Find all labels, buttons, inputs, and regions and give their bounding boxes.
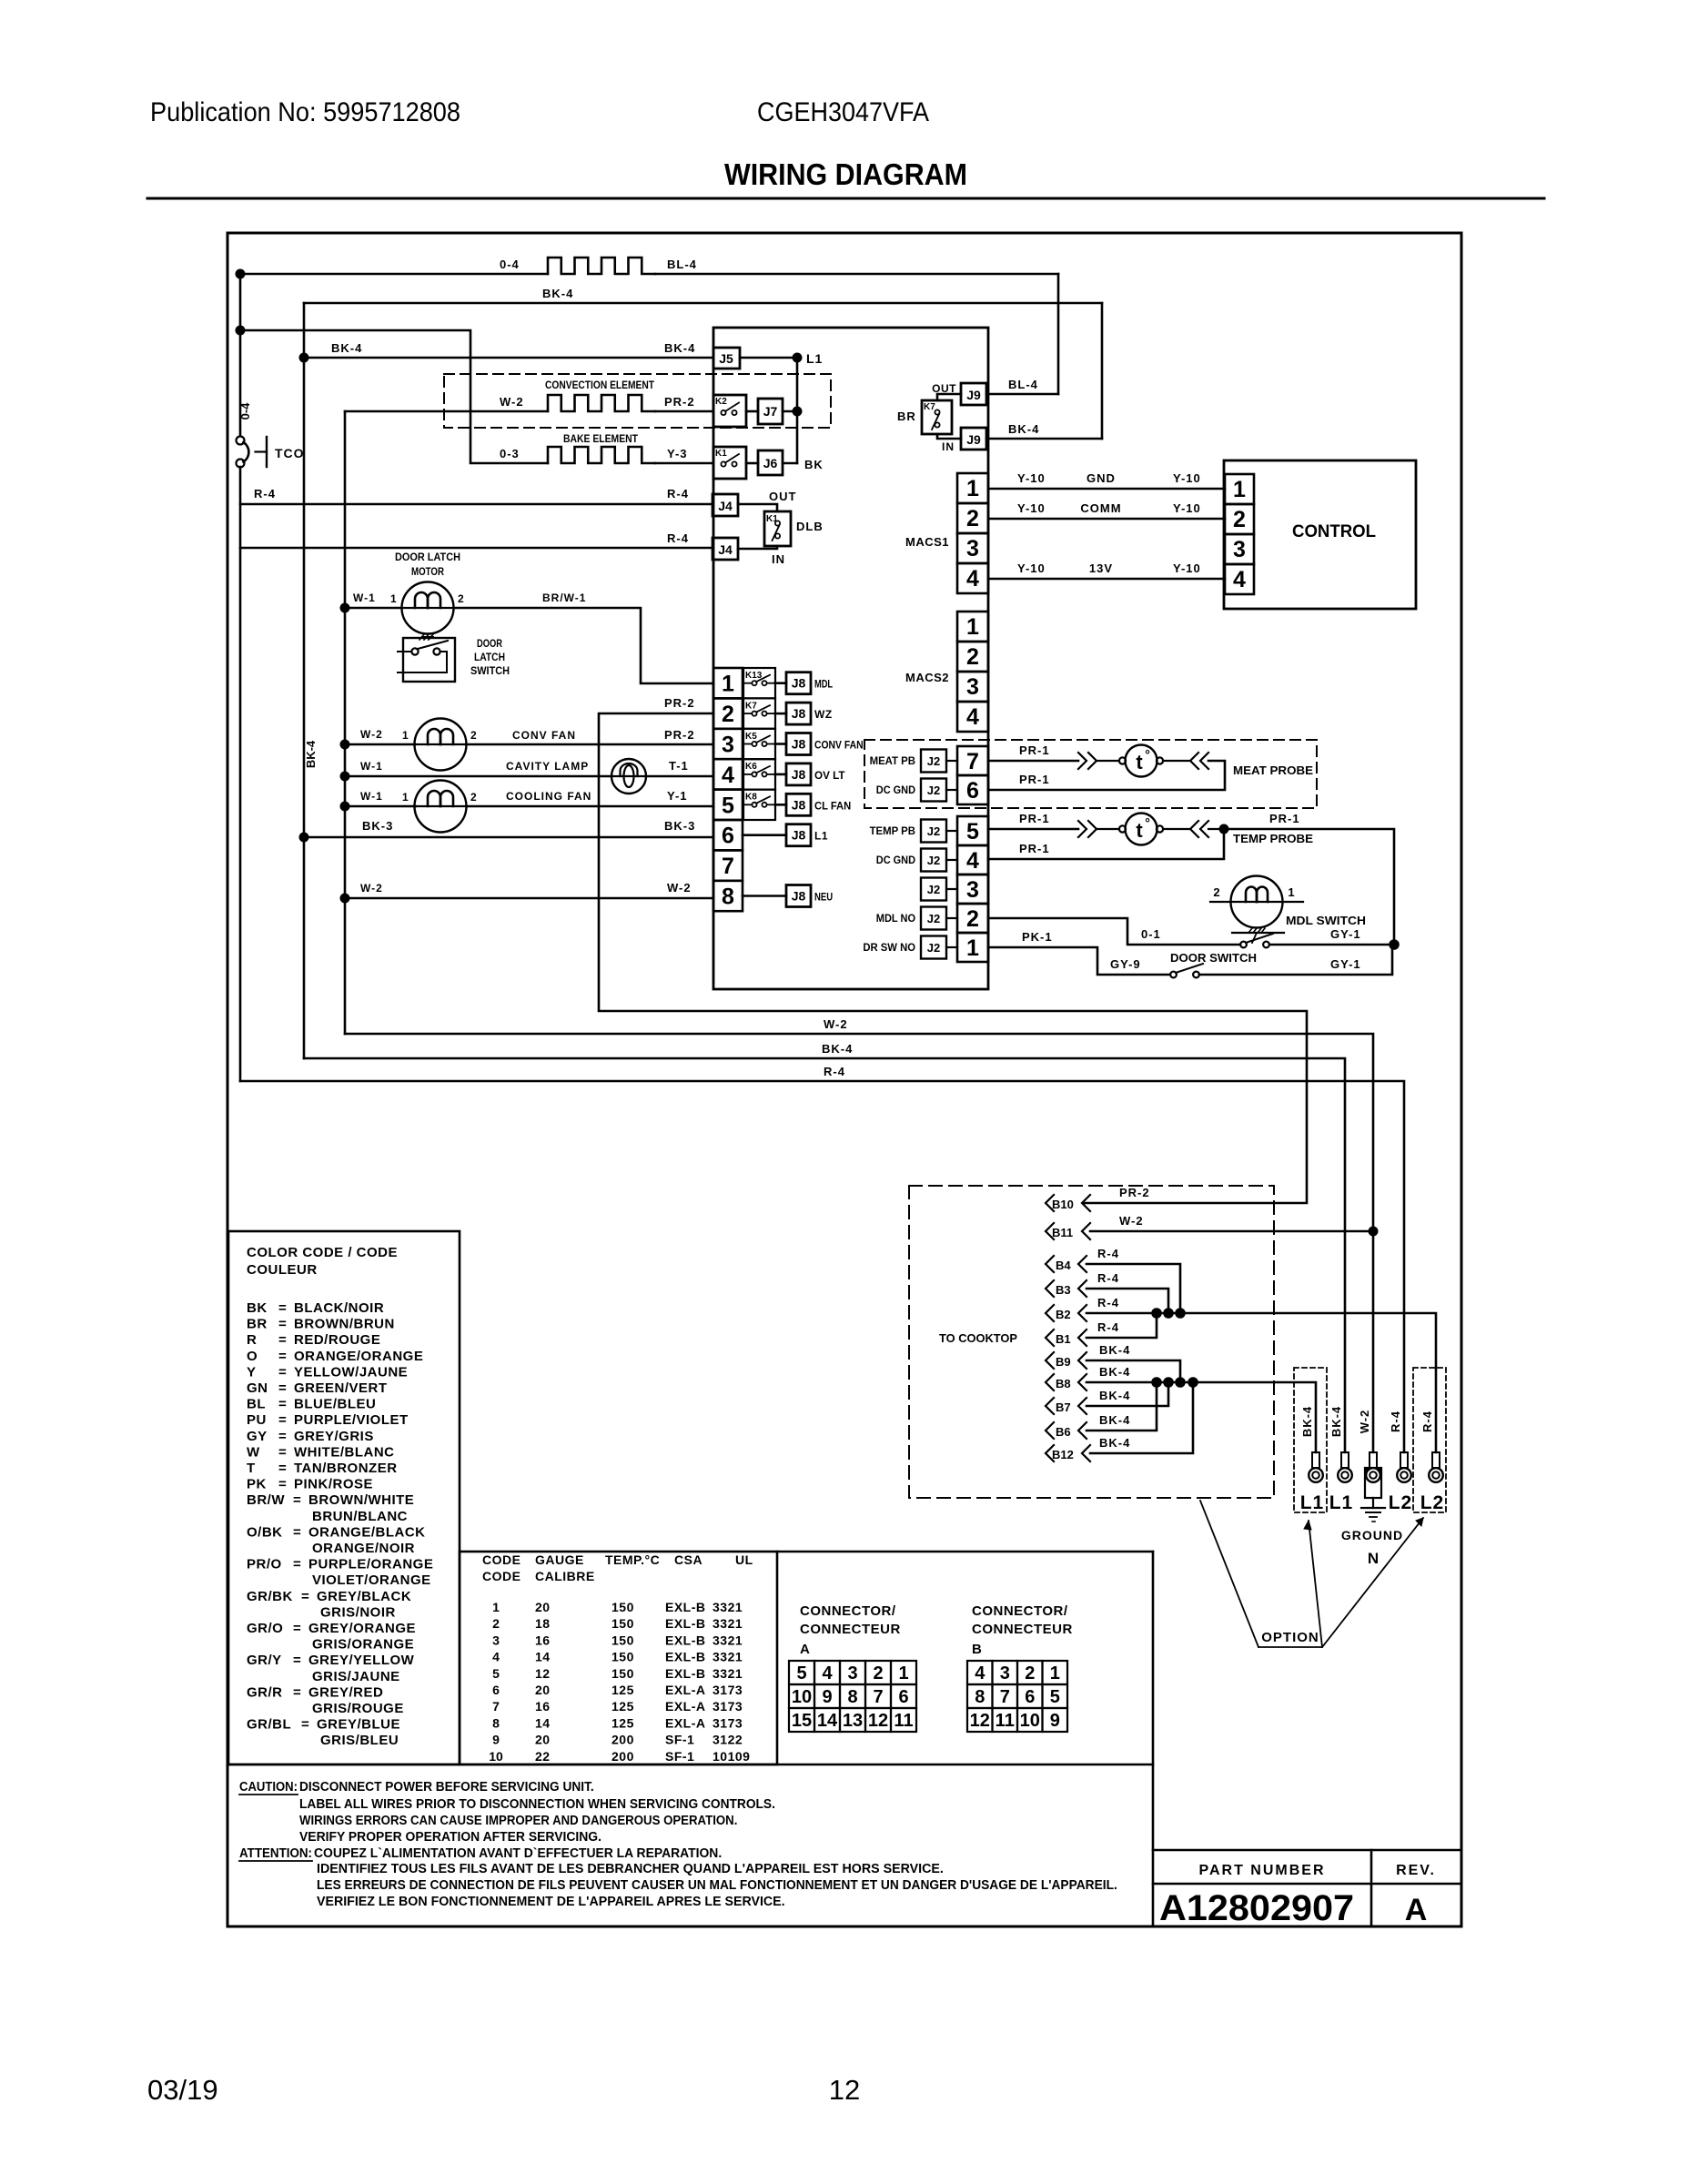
svg-text:8: 8 [722, 885, 734, 910]
svg-text:=: = [278, 1332, 287, 1348]
svg-text:2: 2 [1213, 885, 1219, 899]
svg-text:2: 2 [966, 906, 979, 932]
wire J5 to L1 node [740, 357, 797, 359]
svg-text:2: 2 [873, 1663, 883, 1683]
title rule line [147, 197, 1544, 200]
wire temp probe return to row 4 DC GND [988, 829, 1224, 859]
wire J4 to DLB relay [738, 504, 777, 511]
svg-text:K1: K1 [715, 449, 727, 459]
svg-text:K5: K5 [745, 732, 757, 742]
wire B4 R-4 to bus [1087, 1264, 1180, 1313]
svg-text:GR/Y: GR/Y [247, 1653, 282, 1668]
wire B6 BK-4 to bus [1087, 1382, 1157, 1431]
wire GY-1 from MDL switch to junction [1269, 944, 1394, 946]
svg-text:3173: 3173 [713, 1699, 743, 1714]
svg-text:PK-1: PK-1 [1022, 930, 1053, 944]
cooktop terminal B6 [1046, 1422, 1054, 1439]
svg-text:2: 2 [470, 729, 477, 742]
svg-text:BR/W: BR/W [247, 1492, 285, 1508]
svg-text:16: 16 [535, 1633, 551, 1647]
dashed OPTION box around first L1 terminal [1294, 1368, 1327, 1512]
svg-text:R-4: R-4 [667, 487, 689, 500]
svg-text:CONV FAN: CONV FAN [814, 739, 864, 752]
svg-text:5: 5 [492, 1666, 500, 1681]
door latch motor mount hatch [422, 636, 433, 638]
svg-text:R-4: R-4 [824, 1065, 845, 1078]
connector J5 [713, 348, 740, 369]
svg-text:J8: J8 [792, 828, 806, 843]
thermal cutout TCO [237, 437, 245, 445]
svg-text:J8: J8 [792, 797, 806, 812]
svg-text:PR-1: PR-1 [1019, 812, 1050, 825]
svg-text:BK-3: BK-3 [362, 819, 393, 833]
svg-text:2: 2 [1233, 507, 1246, 532]
cooktop terminal B3 [1046, 1280, 1054, 1297]
MDL switch contacts [1240, 942, 1247, 948]
CONTROL pin boxes 1-4 [1225, 474, 1254, 504]
svg-text:8: 8 [975, 1687, 985, 1707]
svg-text:1: 1 [898, 1663, 908, 1683]
cooktop terminal B1 [1046, 1330, 1054, 1346]
svg-text:BK: BK [804, 458, 824, 471]
cooktop terminal B8 [1046, 1374, 1054, 1390]
svg-text:Publication No: 5995712808: Publication No: 5995712808 [150, 97, 460, 127]
svg-text:W-2: W-2 [360, 728, 383, 741]
svg-text:GR/BK: GR/BK [247, 1589, 293, 1604]
connector MACS1 pin boxes 1-4 [957, 473, 988, 503]
svg-text:TAN/BRONZER: TAN/BRONZER [294, 1461, 398, 1476]
svg-text:J2: J2 [927, 824, 940, 838]
svg-text:W-2: W-2 [824, 1017, 848, 1031]
wire W-1 to door latch motor pin 1 [345, 607, 401, 610]
svg-text:PK: PK [247, 1477, 267, 1492]
svg-text:B12: B12 [1052, 1448, 1074, 1461]
svg-text:9: 9 [1050, 1711, 1060, 1731]
svg-text:J8: J8 [792, 706, 806, 721]
svg-text:Y-10: Y-10 [1017, 501, 1046, 515]
svg-text:B10: B10 [1052, 1198, 1074, 1211]
svg-text:PR-2: PR-2 [664, 728, 695, 742]
junction dot cooling fan wire [340, 802, 350, 812]
connector J9 OUT [961, 383, 986, 405]
svg-text:11: 11 [894, 1711, 913, 1731]
connector J8 WZ [775, 713, 786, 715]
svg-text:9: 9 [822, 1687, 832, 1707]
cooktop terminal B10 [1046, 1195, 1054, 1211]
svg-text:7: 7 [1000, 1687, 1010, 1707]
svg-text:PR/O: PR/O [247, 1557, 282, 1572]
svg-text:PR-2: PR-2 [664, 395, 695, 409]
connector J2 row 3 [921, 878, 946, 901]
svg-text:WHITE/BLANC: WHITE/BLANC [294, 1444, 395, 1460]
svg-text:DISCONNECT POWER BEFORE SERVIC: DISCONNECT POWER BEFORE SERVICING UNIT. [299, 1780, 594, 1795]
connector J4 OUT [713, 494, 738, 516]
svg-text:ORANGE/NOIR: ORANGE/NOIR [312, 1541, 415, 1556]
MDL switch mount hatch [1232, 932, 1284, 934]
svg-text:EXL-B: EXL-B [665, 1600, 706, 1614]
svg-text:R-4: R-4 [254, 487, 276, 500]
svg-text:J8: J8 [792, 889, 806, 904]
cooktop terminal B11 [1046, 1223, 1054, 1239]
svg-text:W-2: W-2 [500, 395, 524, 409]
cooling fan motor [415, 781, 467, 833]
svg-text:4: 4 [722, 763, 734, 788]
svg-text:3321: 3321 [713, 1616, 743, 1631]
wire BR/W-1 from motor to pin 1 of oven connector [454, 608, 713, 683]
wire temp probe PR-1 row 5 [988, 828, 1078, 831]
svg-text:BLACK/NOIR: BLACK/NOIR [294, 1300, 384, 1316]
wire W-2 with convection element symbol [345, 410, 548, 413]
svg-text:VERIFY PROPER OPERATION AFTER: VERIFY PROPER OPERATION AFTER SERVICING. [299, 1830, 601, 1845]
wire 13V MACS1-4 to CONTROL 4 [988, 578, 1225, 581]
svg-text:BK-4: BK-4 [331, 341, 362, 355]
svg-text:BK-4: BK-4 [1099, 1436, 1130, 1450]
svg-text:10: 10 [489, 1749, 503, 1764]
svg-text:BR: BR [897, 409, 916, 423]
wire W-1 to cooling fan [345, 805, 416, 808]
svg-text:3321: 3321 [713, 1600, 743, 1614]
svg-text:O: O [247, 1349, 258, 1364]
svg-text:2: 2 [458, 592, 464, 605]
svg-text:BL-4: BL-4 [667, 258, 697, 271]
rail 0-4 vertical from top dot to TCO [239, 274, 242, 436]
svg-text:6: 6 [898, 1687, 908, 1707]
svg-text:GY-9: GY-9 [1110, 957, 1141, 971]
svg-text:PR-1: PR-1 [1269, 812, 1300, 825]
wire BK-4 into J5 [304, 357, 713, 359]
svg-text:J4: J4 [718, 499, 733, 513]
rail W vertical x=379 [344, 411, 347, 1034]
svg-text:GY-1: GY-1 [1330, 957, 1361, 971]
connector J7 [758, 399, 783, 424]
connector J4 IN [713, 538, 738, 560]
svg-text:150: 150 [612, 1616, 634, 1631]
connector chevrons meat probe right [1190, 753, 1198, 769]
svg-text:BL: BL [247, 1397, 266, 1412]
svg-text:1: 1 [402, 791, 409, 804]
svg-text:=: = [278, 1380, 287, 1396]
svg-text:=: = [293, 1492, 301, 1508]
separator line above caution text [228, 1764, 1153, 1766]
svg-text:W: W [247, 1444, 260, 1460]
svg-text:IN: IN [942, 440, 955, 453]
dashed boundary around meat probe circuit [864, 740, 1317, 808]
svg-text:VERIFIEZ LE BON FONCTIONNEMENT: VERIFIEZ LE BON FONCTIONNEMENT DE L'APPA… [317, 1895, 785, 1909]
relay K5 for pin 3 [743, 729, 775, 759]
svg-text:CONNECTEUR: CONNECTEUR [800, 1622, 901, 1637]
svg-text:8: 8 [492, 1715, 500, 1730]
svg-text:10: 10 [792, 1687, 812, 1707]
svg-text:=: = [278, 1429, 287, 1444]
connector chevrons meat probe left [1078, 753, 1087, 769]
svg-text:=: = [293, 1557, 301, 1572]
svg-text:B9: B9 [1056, 1355, 1071, 1369]
svg-text:4: 4 [1233, 567, 1246, 592]
svg-text:BR: BR [247, 1317, 268, 1332]
svg-text:CONVECTION ELEMENT: CONVECTION ELEMENT [545, 379, 655, 391]
svg-text:BROWN/WHITE: BROWN/WHITE [308, 1492, 414, 1508]
junction dot GY-1 node [1389, 939, 1400, 950]
svg-text:CODE: CODE [482, 1552, 521, 1567]
wire DR SW NO row 1 to door switch [988, 947, 1170, 975]
svg-text:R-4: R-4 [1097, 1296, 1119, 1309]
svg-text:CGEH3047VFA: CGEH3047VFA [757, 97, 929, 127]
oven connector pin column boxes 1-8 [713, 668, 743, 698]
svg-text:DOOR SWITCH: DOOR SWITCH [1170, 951, 1257, 965]
svg-text:W-1: W-1 [360, 790, 383, 803]
MDL switch motor symbol [1231, 876, 1283, 928]
svg-text:BK-4: BK-4 [1300, 1406, 1314, 1437]
connector J2 row 5 TEMP PB [921, 820, 946, 843]
svg-text:J2: J2 [927, 754, 940, 768]
svg-text:BROWN/BRUN: BROWN/BRUN [294, 1317, 395, 1332]
svg-text:7: 7 [492, 1699, 500, 1714]
relay K7 BR [937, 394, 961, 400]
svg-text:GREEN/VERT: GREEN/VERT [294, 1380, 388, 1396]
svg-text:3321: 3321 [713, 1666, 743, 1681]
junction dot cavity lamp wire [340, 772, 350, 782]
cooktop terminal B9 [1046, 1352, 1054, 1369]
bake element symbol on wire 0-3 / Y-3 [548, 447, 655, 463]
svg-text:18: 18 [535, 1616, 551, 1631]
connector J2 row 7 MEAT PB [921, 750, 946, 773]
svg-text:EXL-B: EXL-B [665, 1666, 706, 1681]
svg-text:5: 5 [796, 1663, 806, 1683]
svg-text:7: 7 [873, 1687, 883, 1707]
svg-text:3321: 3321 [713, 1650, 743, 1664]
svg-text:3173: 3173 [713, 1683, 743, 1697]
svg-text:GN: GN [247, 1380, 268, 1396]
wire cooling fan to pin 5 [467, 805, 713, 808]
CONTROL box [1224, 460, 1416, 609]
wire K1 to J6 [746, 462, 758, 465]
junction dot door latch motor wire [340, 603, 350, 613]
svg-text:0-4: 0-4 [500, 258, 520, 271]
node L1 [793, 353, 803, 363]
connector J8 CONV FAN [775, 743, 786, 745]
svg-text:CAUTION:: CAUTION: [239, 1780, 298, 1795]
wire B3 R-4 to bus [1087, 1289, 1168, 1313]
svg-text:BR/W-1: BR/W-1 [542, 591, 586, 604]
svg-text:0-4: 0-4 [238, 402, 252, 420]
svg-text:1: 1 [722, 672, 734, 697]
svg-text:J8: J8 [792, 767, 806, 782]
svg-text:°: ° [1145, 747, 1150, 762]
svg-text:B6: B6 [1056, 1425, 1071, 1439]
svg-text:SWITCH: SWITCH [470, 664, 510, 677]
svg-text:4: 4 [966, 566, 979, 591]
svg-text:COULEUR: COULEUR [247, 1262, 318, 1278]
svg-text:PURPLE/VIOLET: PURPLE/VIOLET [294, 1412, 409, 1428]
svg-text:W-1: W-1 [360, 760, 383, 773]
svg-text:PR-1: PR-1 [1019, 743, 1050, 757]
svg-text:=: = [278, 1317, 287, 1332]
svg-text:1: 1 [390, 592, 397, 605]
connector J2 row 2 MDL NO [921, 907, 946, 930]
svg-text:MEAT PROBE: MEAT PROBE [1233, 763, 1313, 777]
svg-text:GRIS/NOIR: GRIS/NOIR [320, 1604, 396, 1620]
junction dot BK-4 rail to J5 wire [299, 353, 309, 363]
svg-text:7: 7 [966, 749, 979, 774]
svg-text:GROUND: GROUND [1341, 1528, 1403, 1542]
svg-text:°: ° [1145, 815, 1150, 830]
connector J8 L1 [743, 834, 786, 836]
svg-text:2: 2 [966, 506, 979, 531]
svg-text:PU: PU [247, 1412, 267, 1428]
door latch switch [403, 638, 455, 682]
svg-text:T-1: T-1 [669, 759, 689, 773]
svg-text:=: = [278, 1300, 287, 1316]
svg-text:12: 12 [970, 1711, 990, 1731]
wire GND MACS1-1 to CONTROL 1 [988, 488, 1225, 490]
wire R-4 bottom main run [240, 1081, 1404, 1452]
svg-text:K7: K7 [924, 402, 935, 412]
svg-text:K8: K8 [745, 793, 757, 803]
svg-text:14: 14 [535, 1650, 551, 1664]
svg-text:1: 1 [966, 476, 979, 501]
svg-text:125: 125 [612, 1699, 634, 1714]
svg-text:Y-3: Y-3 [667, 447, 688, 460]
svg-text:BRUN/BLANC: BRUN/BLANC [312, 1509, 408, 1524]
svg-text:t: t [1136, 751, 1143, 773]
svg-text:N: N [1368, 1550, 1379, 1567]
junction dot temp probe node [1219, 824, 1229, 834]
svg-text:MACS1: MACS1 [905, 535, 949, 549]
wire MDL NO row 2 to switch [988, 918, 1240, 945]
svg-text:3173: 3173 [713, 1715, 743, 1730]
svg-text:3: 3 [1233, 537, 1246, 562]
wire meat probe return to row 6 DC GND [988, 761, 1225, 790]
svg-text:GY: GY [247, 1429, 268, 1444]
svg-text:B2: B2 [1056, 1308, 1071, 1321]
node dot on rail x=264 feeding bake element [236, 326, 246, 336]
svg-text:2: 2 [470, 791, 477, 804]
wire B11 W-2 to main junction [1090, 1230, 1373, 1233]
oven control body box [713, 328, 988, 989]
svg-text:EXL-A: EXL-A [665, 1699, 706, 1714]
svg-text:4: 4 [966, 704, 979, 730]
svg-text:B: B [972, 1642, 982, 1657]
wire B9 BK-4 to bus [1087, 1360, 1180, 1382]
svg-text:2: 2 [1025, 1663, 1035, 1683]
wire B7 BK-4 to bus [1087, 1382, 1168, 1406]
svg-text:=: = [278, 1397, 287, 1412]
relay K13 for pin 1 [743, 668, 775, 698]
svg-text:2: 2 [722, 702, 734, 727]
wire lamp to pin 4 [646, 775, 713, 778]
wire B12 BK-4 to bus [1090, 1382, 1193, 1453]
svg-text:10109: 10109 [713, 1749, 750, 1764]
svg-text:13: 13 [843, 1711, 863, 1731]
wire gauge table box [460, 1552, 777, 1764]
wire B1 R-4 to bus [1087, 1313, 1157, 1338]
svg-text:BL-4: BL-4 [1008, 378, 1038, 391]
svg-text:125: 125 [612, 1715, 634, 1730]
svg-text:B1: B1 [1056, 1332, 1071, 1346]
wire conv fan to pin 3 [466, 743, 713, 746]
svg-text:2: 2 [492, 1616, 500, 1631]
svg-text:J4: J4 [718, 542, 733, 557]
relay K6 for pin 4 [743, 759, 775, 789]
svg-text:J7: J7 [763, 404, 778, 419]
svg-text:J2: J2 [927, 854, 940, 867]
cavity lamp symbol [612, 759, 646, 794]
svg-text:GRIS/ROUGE: GRIS/ROUGE [312, 1701, 404, 1716]
svg-text:GREY/BLACK: GREY/BLACK [317, 1589, 411, 1604]
svg-text:1: 1 [492, 1600, 500, 1614]
relay K1 DLB [764, 511, 791, 546]
wire R-4 to J4 IN [240, 547, 713, 550]
svg-text:T: T [247, 1461, 256, 1476]
svg-text:WIRINGS ERRORS CAN CAUSE IMPRO: WIRINGS ERRORS CAN CAUSE IMPROPER AND DA… [299, 1814, 737, 1828]
svg-text:OUT: OUT [769, 490, 796, 503]
wire BL-4 drop to J9 OUT [1057, 274, 1060, 394]
svg-text:J2: J2 [927, 912, 940, 925]
svg-text:B3: B3 [1056, 1283, 1071, 1297]
connector J2 row 1 DR SW NO [921, 936, 946, 959]
svg-text:16: 16 [535, 1699, 551, 1714]
svg-text:LATCH: LATCH [474, 651, 505, 663]
svg-text:3321: 3321 [713, 1633, 743, 1647]
wire J7 to L1 bus [783, 410, 797, 413]
svg-text:DC GND: DC GND [876, 854, 915, 866]
svg-text:BK-4: BK-4 [1099, 1389, 1130, 1402]
temp probe thermistor [1119, 825, 1126, 832]
svg-text:TEMP PROBE: TEMP PROBE [1233, 832, 1313, 845]
svg-text:Y-10: Y-10 [1017, 471, 1046, 485]
svg-text:NEU: NEU [814, 891, 833, 904]
svg-text:J6: J6 [763, 456, 778, 470]
svg-text:RED/ROUGE: RED/ROUGE [294, 1332, 380, 1348]
svg-text:L2: L2 [1420, 1492, 1445, 1513]
svg-text:5: 5 [722, 793, 734, 818]
connector MACS2 pin boxes 1-4 [957, 612, 988, 642]
wire W-2 bottom main run [345, 1034, 1373, 1452]
svg-text:=: = [293, 1524, 301, 1540]
svg-text:PR-1: PR-1 [1019, 842, 1050, 855]
connector J8 CL FAN [775, 804, 786, 806]
svg-text:GREY/BLUE: GREY/BLUE [317, 1717, 400, 1733]
svg-text:6: 6 [966, 778, 979, 804]
wire W-2 to convection fan [345, 743, 415, 746]
wire K2 to J7 [746, 410, 758, 413]
svg-text:COOLING FAN: COOLING FAN [506, 790, 591, 803]
svg-text:ORANGE/BLACK: ORANGE/BLACK [308, 1524, 426, 1540]
wire BK-3 to pin 6 [304, 836, 713, 839]
svg-text:0-1: 0-1 [1141, 927, 1161, 941]
svg-text:CODE: CODE [482, 1569, 521, 1583]
svg-text:4: 4 [492, 1650, 500, 1664]
svg-text:ORANGE/ORANGE: ORANGE/ORANGE [294, 1349, 423, 1364]
svg-text:LABEL ALL WIRES PRIOR TO DISCO: LABEL ALL WIRES PRIOR TO DISCONNECTION W… [299, 1797, 775, 1812]
svg-text:6: 6 [1025, 1687, 1035, 1707]
svg-text:DR SW NO: DR SW NO [863, 941, 915, 954]
door latch motor M1 [402, 582, 454, 634]
svg-text:3: 3 [966, 674, 979, 700]
svg-text:MACS2: MACS2 [905, 671, 949, 684]
svg-text:15: 15 [792, 1711, 812, 1731]
svg-text:PURPLE/ORANGE: PURPLE/ORANGE [308, 1557, 433, 1572]
svg-text:GY-1: GY-1 [1330, 927, 1361, 941]
svg-text:TCO: TCO [275, 446, 305, 460]
wire COMM MACS1-2 to CONTROL 2 [988, 518, 1225, 521]
svg-text:22: 22 [535, 1749, 551, 1764]
svg-text:BK-4: BK-4 [542, 287, 573, 300]
relay K8 for pin 5 [743, 790, 775, 820]
svg-text:J2: J2 [927, 941, 940, 955]
svg-text:L1: L1 [814, 830, 828, 843]
cooktop terminal B7 [1046, 1398, 1054, 1414]
